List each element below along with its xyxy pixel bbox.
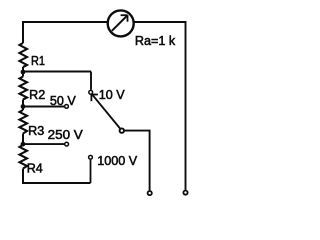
wire from meter to right rail [134, 21, 187, 23]
resistor R4 [20, 145, 43, 176]
resistor R2 [20, 77, 46, 102]
svg-text:R2: R2 [29, 88, 45, 102]
wire left rail between R1 and R2 [22, 67, 24, 77]
wire 10V tap vertical down to contact [90, 72, 92, 90]
resistor R3 [20, 110, 45, 138]
terminal left [148, 191, 152, 195]
svg-text:50 V: 50 V [50, 94, 77, 108]
junction dot R1-R2 [21, 70, 26, 75]
node 250 V contact [48, 128, 84, 146]
node 1000 V contact [89, 154, 138, 168]
wire left rail between R2 and R3 [22, 100, 24, 111]
wire riser to 1000V contact [90, 160, 92, 183]
wire left rail top segment [22, 21, 24, 43]
switch arm S1 shaft [92, 94, 122, 130]
terminal right [183, 191, 187, 195]
wire right rail down [185, 21, 187, 190]
resistor R1 [20, 43, 46, 68]
wire top from left rail to meter [23, 21, 108, 23]
node 50 V contact [50, 94, 77, 108]
wire 250V tap [23, 143, 65, 145]
svg-text:R1: R1 [31, 54, 45, 68]
svg-text:250 V: 250 V [48, 128, 84, 142]
meter arrow [112, 15, 128, 31]
wire left rail bottom segment [22, 169, 24, 185]
wire from pivot to right then down [125, 131, 150, 191]
wire 50V tap [23, 106, 65, 108]
switch pivot [120, 128, 124, 132]
svg-text:R3: R3 [28, 124, 44, 138]
wire bottom from left rail to 1000V riser [22, 182, 91, 184]
junction dot R2-R3 [21, 104, 26, 109]
svg-text:10 V: 10 V [99, 88, 126, 102]
node 10 V contact [89, 88, 125, 102]
switch arm arrowhead [91, 95, 98, 102]
label Ra=1 k [135, 34, 176, 48]
svg-text:1000 V: 1000 V [97, 154, 138, 168]
junction dot R3-R4 [21, 142, 26, 147]
wire left rail between R3 and R4 [22, 134, 24, 146]
wire 10V tap horizontal from R1-R2 junction [23, 71, 91, 73]
svg-text:R4: R4 [27, 162, 43, 176]
svg-text:Ra=1 k: Ra=1 k [135, 34, 176, 48]
meter M1 (circle) [108, 10, 134, 36]
